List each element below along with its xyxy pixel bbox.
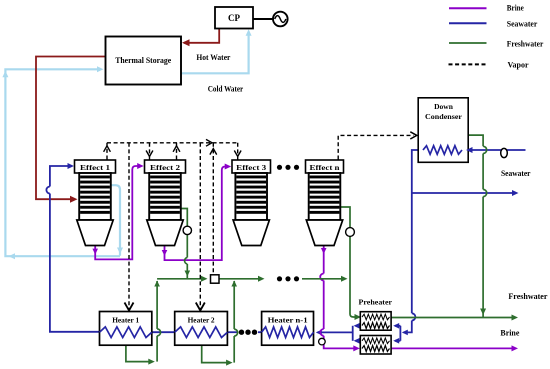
trap circle on brine line [319,338,326,345]
wire seawater heater 1 to Effect 1 [50,194,100,332]
svg-text:Brine: Brine [500,329,519,338]
vapor from Effect1 [106,143,108,160]
svg-text:Cold Water: Cold Water [208,85,244,94]
hop navy riser [46,187,49,194]
evaporator vessel Effect 3 [232,160,271,246]
wire seawater between heaters [258,331,262,333]
svg-text:Effect 1: Effect 1 [80,163,110,172]
svg-text:Down: Down [434,102,454,111]
legend Seawater [449,22,487,24]
wire cold-water return loop left [5,69,120,256]
hop green over seawater discharge [483,189,487,196]
svg-text:Heater 2: Heater 2 [188,315,215,324]
wire brine outlet [391,347,513,349]
Heater 1 box [100,312,152,346]
hop green over seawater [157,329,160,336]
evaporator vessel Effect 2 [145,160,186,246]
legend Freshwater [449,42,487,44]
vapor drop to heater1 [128,143,130,309]
down condenser [418,98,472,163]
wire freshwater Effect2 drain [180,209,187,258]
wire freshwater Effect n drain [340,207,351,314]
svg-text:Hot Water: Hot Water [196,53,230,62]
legend Vapor [449,63,487,65]
flash pot circle Effect n [346,228,355,237]
flash pot circle Effect2 [183,226,191,234]
wire seawater condenser to preheater [412,150,418,313]
vapor from Effect2 [176,143,178,160]
legend Brine [449,7,487,9]
evaporator vessel Effect n [306,160,344,246]
svg-text:Heater n-1: Heater n-1 [268,315,308,324]
dots on freshwater header [277,276,299,281]
hop green over brine [185,258,188,265]
hop brine over seawater line [320,329,323,336]
vapor drop to mixer [212,143,214,274]
vapor header line [107,142,238,144]
hop green over seawater [234,329,237,336]
vapor Effect n to condenser [338,135,413,159]
svg-text:Freshwater: Freshwater [507,40,544,49]
wire freshwater condenser drain [468,135,483,146]
preheater lower exchanger [360,336,391,355]
wire cold-water from Effect 1 [111,185,120,256]
Heater 2 box [175,312,228,346]
wire brine Effect1 to Effect2 [95,166,140,259]
svg-text:Heater 1: Heater 1 [112,315,139,324]
wire freshwater header [157,278,203,280]
thermal storage tank [106,37,182,85]
svg-text:Effect 3: Effect 3 [236,163,266,172]
CP box [215,7,253,29]
svg-text:Preheater: Preheater [359,298,393,307]
hop navy over freshwater [412,313,416,320]
dots between heaters [239,330,257,335]
svg-text:Effect n: Effect n [310,163,341,172]
wire hot-water CP to storage [184,29,219,43]
vapor into Effect2 [149,143,151,160]
hop green over seawater inlet [483,146,487,153]
svg-text:Vapor: Vapor [508,60,529,69]
svg-text:Seawater: Seawater [507,19,538,28]
vapor drop to heater2 [199,143,201,309]
evaporator vessel Effect 1 [75,160,116,246]
Heater n-1 box [262,312,314,346]
svg-text:Thermal Storage: Thermal Storage [115,55,171,65]
wire hot-water storage to Effect 1 [36,57,106,200]
wire cold-water storage to CP [181,32,249,74]
vapor into Effect3 [237,143,239,160]
svg-text:Condenser: Condenser [425,112,463,121]
wire freshwater outlet [391,317,514,319]
wire seawater discharge [412,192,515,194]
svg-text:Effect 2: Effect 2 [150,163,180,172]
svg-text:Brine: Brine [507,4,524,13]
dots between Effect 3 and Effect n [277,165,299,170]
wire brine Effect2 to Effect3 [165,167,228,261]
valve on seawater inlet [501,148,508,157]
preheater upper exchanger [360,312,391,331]
vapor arrow on header [206,139,212,146]
hop brine over freshwater header [320,274,323,281]
wire brine Effect n to preheater [323,246,325,274]
wire freshwater heater2 return riser [202,345,230,363]
wire seawater preheater exits to heater n-1 [356,325,361,327]
wire freshwater heater1 return riser [126,345,152,362]
wire seawater inlet [467,149,526,151]
svg-text:Freshwater: Freshwater [508,292,547,301]
AC generator symbol [273,12,288,27]
svg-text:Seawater: Seawater [501,169,531,178]
mixer box on freshwater header [211,275,220,283]
generator link [253,18,273,20]
svg-text:CP: CP [228,13,240,23]
